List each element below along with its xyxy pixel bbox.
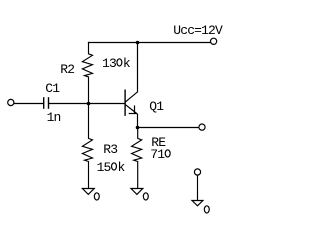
output terminal <box>199 124 205 130</box>
svg-text:Ucc=12V: Ucc=12V <box>173 23 223 38</box>
ground bottom-right <box>192 201 203 206</box>
label 0 of RE ground <box>143 193 148 200</box>
terminal Ucc <box>211 38 217 44</box>
capacitor C1 <box>44 97 49 109</box>
label 0 of R3 ground <box>94 193 99 200</box>
svg-text:C1: C1 <box>45 81 60 96</box>
wire terminal to ground <box>197 175 199 200</box>
node base junction <box>87 102 91 106</box>
resistor R3 <box>82 104 92 189</box>
node emitter junction <box>136 126 140 130</box>
svg-text:R2: R2 <box>60 62 74 77</box>
ground below RE <box>131 189 143 195</box>
svg-text:1n: 1n <box>47 110 61 125</box>
wire Vcc rail <box>89 42 211 44</box>
ground below R3 <box>82 189 94 195</box>
svg-text:Q1: Q1 <box>149 99 164 114</box>
terminal bottom-right <box>194 169 200 175</box>
svg-text:71: 71 <box>150 147 165 162</box>
svg-text:R3: R3 <box>103 142 117 157</box>
transistor Q1 <box>125 43 137 128</box>
node collector-rail junction <box>136 41 140 45</box>
input terminal <box>8 99 14 105</box>
resistor RE <box>132 128 142 189</box>
label 0 of bottom-right ground <box>204 206 209 213</box>
wire emitter to output <box>138 127 199 129</box>
resistor R2 <box>82 43 92 104</box>
wire C1 to Q1 base <box>49 103 125 105</box>
wire input to C1 <box>14 103 43 105</box>
